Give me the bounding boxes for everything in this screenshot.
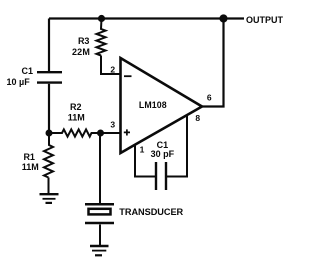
node B: R2/transducer/pin3 junction — [97, 130, 104, 137]
wire: pin 1 lead — [135, 145, 156, 177]
svg-text:OUTPUT: OUTPUT — [246, 15, 283, 25]
capacitor C1 10uF — [37, 72, 62, 82]
wire: pin 3 lead — [101, 132, 121, 134]
node: output junction — [219, 14, 227, 22]
svg-text:R3: R3 — [78, 36, 90, 46]
svg-text:22M: 22M — [72, 47, 90, 57]
wire: pin 8 lead — [166, 115, 187, 177]
wire: transducer to ground — [99, 225, 101, 246]
svg-text:1: 1 — [140, 145, 145, 155]
transducer Y1 — [85, 203, 114, 206]
wire: output stub — [228, 17, 245, 19]
wire: pin 2 lead — [101, 56, 120, 75]
wire: left rail upper (top rail to C1) — [48, 19, 50, 72]
svg-text:R1: R1 — [23, 152, 35, 162]
svg-text:C1: C1 — [22, 66, 34, 76]
ground under transducer — [90, 245, 109, 247]
svg-text:6: 6 — [207, 93, 212, 103]
svg-text:11M: 11M — [22, 162, 39, 172]
svg-text:TRANSDUCER: TRANSDUCER — [119, 207, 183, 217]
wire: left rail lower (C1 to node A) — [48, 84, 50, 133]
svg-text:R2: R2 — [70, 102, 82, 112]
svg-text:LM108: LM108 — [139, 100, 167, 110]
svg-text:30 pF: 30 pF — [151, 149, 175, 159]
wire: top rail — [49, 17, 224, 19]
resistor R2 11M — [49, 129, 101, 136]
svg-text:8: 8 — [195, 113, 200, 123]
wire: R1 to ground — [48, 178, 50, 194]
ground under R1 — [40, 193, 59, 195]
svg-text:3: 3 — [110, 120, 115, 130]
node: top junction at R3 — [98, 15, 105, 22]
wire: node B down to transducer — [99, 133, 101, 203]
op-amp non-inverting input plus sign — [124, 129, 130, 135]
resistor R3 22M — [97, 19, 106, 56]
op-amp inverting input minus sign — [124, 75, 132, 77]
svg-text:11M: 11M — [68, 113, 85, 123]
wire: pin 6 lead to output node — [202, 19, 224, 107]
svg-text:2: 2 — [110, 64, 115, 74]
resistor R1 11M — [44, 133, 53, 178]
capacitor C1 30pF plates — [156, 162, 166, 190]
node A: R1/R2/C1 junction — [46, 130, 53, 137]
op-amp U1 LM108 triangle — [121, 58, 203, 153]
svg-text:10 µF: 10 µF — [7, 77, 31, 87]
